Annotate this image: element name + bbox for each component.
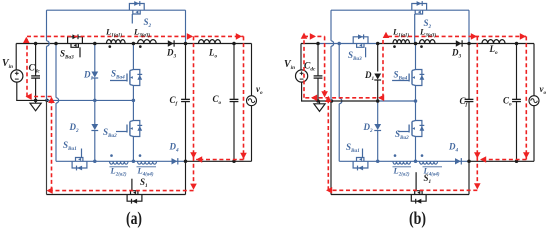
svg-text:(a): (a) [126,208,142,228]
svg-text:(b): (b) [409,208,426,228]
